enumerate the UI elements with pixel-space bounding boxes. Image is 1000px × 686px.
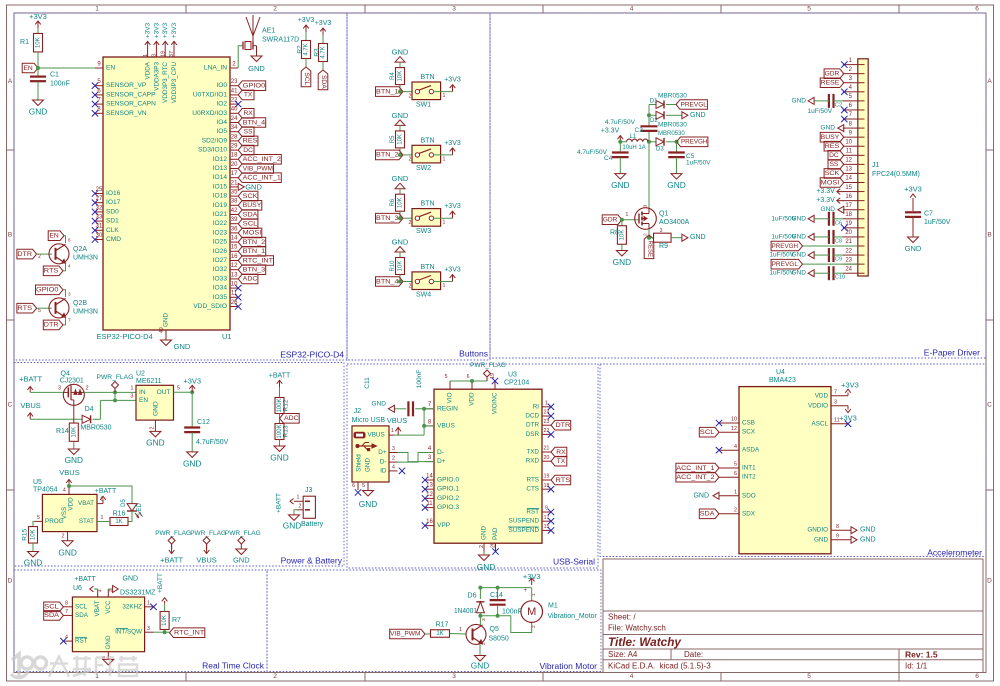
svg-text:IO5: IO5	[216, 128, 227, 135]
svg-text:D-: D-	[437, 449, 444, 456]
svg-text:SENSOR_CAPP: SENSOR_CAPP	[106, 91, 156, 98]
svg-text:RTC_INT: RTC_INT	[174, 630, 204, 637]
svg-text:DSR: DSR	[526, 431, 540, 438]
svg-text:11: 11	[846, 149, 853, 155]
svg-text:2: 2	[273, 673, 277, 680]
svg-text:VBUS: VBUS	[387, 416, 407, 425]
svg-text:22: 22	[544, 428, 550, 434]
svg-text:9: 9	[836, 533, 839, 539]
svg-text:GND: GND	[392, 238, 409, 247]
svg-text:4: 4	[68, 264, 71, 269]
svg-text:File: Watchy.sch: File: Watchy.sch	[608, 624, 666, 633]
svg-text:BTN_3: BTN_3	[376, 215, 399, 222]
svg-text:3: 3	[392, 446, 395, 452]
svg-text:C11: C11	[364, 377, 371, 389]
svg-text:CLK: CLK	[106, 227, 119, 234]
svg-text:D3: D3	[656, 147, 664, 153]
svg-text:VDD: VDD	[815, 392, 829, 399]
svg-text:Vibration Motor: Vibration Motor	[540, 661, 598, 671]
svg-text:GND: GND	[392, 174, 409, 183]
svg-text:Sheet: /: Sheet: /	[608, 613, 636, 622]
svg-text:BTN_1: BTN_1	[376, 88, 399, 95]
svg-text:BTN_4: BTN_4	[376, 278, 399, 285]
svg-text:IO32: IO32	[213, 266, 228, 273]
svg-text:2: 2	[409, 157, 412, 163]
svg-text:35: 35	[231, 190, 238, 196]
svg-text:IO12: IO12	[213, 156, 228, 163]
svg-text:GND: GND	[613, 257, 631, 267]
svg-text:GND: GND	[359, 499, 377, 509]
svg-text:U0RXD/IO3: U0RXD/IO3	[192, 110, 227, 117]
svg-text:RTS: RTS	[44, 268, 59, 275]
svg-text:3: 3	[834, 399, 837, 405]
svg-text:17: 17	[544, 515, 550, 521]
svg-text:J2: J2	[354, 408, 362, 415]
svg-text:D4: D4	[85, 406, 94, 413]
svg-text:VBUS: VBUS	[59, 468, 79, 477]
svg-text:GND: GND	[174, 342, 191, 351]
svg-text:1: 1	[95, 6, 99, 13]
svg-text:VDDA: VDDA	[145, 61, 152, 79]
svg-text:1uF/50V: 1uF/50V	[771, 215, 796, 222]
svg-text:U1: U1	[222, 332, 232, 341]
svg-text:ADC: ADC	[243, 276, 258, 283]
svg-text:J1: J1	[872, 162, 880, 169]
svg-text:ADC: ADC	[284, 415, 299, 422]
svg-text:2: 2	[479, 545, 485, 548]
svg-text:49: 49	[159, 327, 165, 333]
svg-text:D-: D-	[380, 459, 387, 466]
svg-text:+3V3: +3V3	[444, 140, 461, 147]
svg-text:1: 1	[297, 495, 300, 501]
svg-text:SCL: SCL	[44, 604, 59, 611]
svg-text:SDA: SDA	[243, 211, 258, 218]
svg-text:Rev: 1.5: Rev: 1.5	[905, 650, 938, 660]
svg-text:17: 17	[845, 203, 852, 209]
svg-text:IO33: IO33	[213, 275, 228, 282]
svg-text:GPIO.0: GPIO.0	[437, 477, 459, 484]
svg-text:DTR: DTR	[526, 422, 539, 429]
svg-text:Battery: Battery	[301, 521, 324, 528]
svg-text:IO13: IO13	[213, 165, 228, 172]
svg-text:Q5: Q5	[490, 626, 499, 633]
svg-text:IO25: IO25	[213, 239, 228, 246]
svg-text:PREVGL: PREVGL	[681, 101, 708, 108]
svg-text:GNDIO: GNDIO	[807, 527, 828, 534]
svg-text:1: 1	[443, 156, 446, 162]
svg-text:USB-Serial: USB-Serial	[553, 557, 595, 567]
svg-text:GND: GND	[248, 64, 265, 73]
svg-text:CJ2301: CJ2301	[60, 378, 84, 385]
svg-text:5: 5	[807, 6, 811, 13]
svg-text:41: 41	[231, 88, 238, 94]
svg-text:Q2A: Q2A	[73, 246, 87, 253]
svg-text:3: 3	[452, 6, 456, 13]
svg-text:GND: GND	[392, 111, 409, 120]
svg-text:SCL: SCL	[700, 429, 715, 436]
svg-text:U6: U6	[73, 585, 82, 592]
svg-text:1: 1	[545, 400, 548, 406]
svg-text:STAT: STAT	[79, 518, 94, 525]
svg-text:OUT: OUT	[157, 389, 171, 396]
svg-text:GND: GND	[690, 234, 706, 241]
svg-text:CSB: CSB	[742, 420, 755, 427]
svg-text:R12: R12	[283, 399, 290, 411]
svg-text:INT1: INT1	[742, 465, 756, 472]
svg-text:GDR: GDR	[825, 70, 840, 77]
svg-text:+BATT: +BATT	[95, 488, 117, 495]
svg-text:4.7K: 4.7K	[321, 46, 327, 58]
svg-text:BTN_3: BTN_3	[243, 267, 266, 274]
svg-text:34: 34	[231, 125, 238, 131]
svg-text:VIO/NC: VIO/NC	[492, 392, 499, 414]
svg-text:J3: J3	[305, 487, 313, 494]
svg-text:BTN: BTN	[421, 74, 435, 81]
svg-text:ACC_INT_1: ACC_INT_1	[676, 465, 714, 472]
svg-text:4.7uF/50V: 4.7uF/50V	[605, 119, 636, 126]
svg-text:GND: GND	[270, 453, 288, 463]
svg-text:+3.3V: +3.3V	[601, 128, 620, 135]
svg-text:R8: R8	[610, 230, 619, 237]
svg-text:+3V3: +3V3	[444, 267, 461, 274]
svg-text:10K: 10K	[398, 197, 404, 208]
svg-text:3: 3	[58, 386, 61, 392]
svg-text:Date:: Date:	[684, 650, 703, 659]
svg-text:2: 2	[108, 589, 114, 592]
svg-text:6: 6	[352, 483, 355, 489]
svg-text:C10: C10	[835, 275, 845, 281]
svg-text:SW1: SW1	[416, 102, 431, 109]
svg-text:PREVGL: PREVGL	[772, 261, 799, 268]
svg-text:4: 4	[630, 6, 634, 13]
svg-text:TX: TX	[557, 458, 566, 465]
svg-text:C1: C1	[50, 72, 59, 79]
svg-text:ACC_INT_2: ACC_INT_2	[676, 474, 714, 481]
svg-text:PAD: PAD	[492, 527, 499, 540]
svg-text:IO18: IO18	[213, 193, 228, 200]
svg-text:R15: R15	[22, 528, 29, 540]
svg-text:IO34: IO34	[213, 285, 228, 292]
svg-text:36: 36	[231, 226, 238, 232]
svg-text:VBAT: VBAT	[94, 600, 101, 616]
svg-text:GND: GND	[65, 455, 83, 465]
svg-text:IO16: IO16	[106, 190, 121, 197]
svg-text:18: 18	[231, 153, 238, 159]
svg-text:C: C	[987, 402, 992, 409]
svg-text:1: 1	[459, 627, 462, 633]
svg-text:RTS: RTS	[527, 477, 539, 484]
svg-text:VIB_PWM: VIB_PWM	[243, 165, 274, 172]
svg-text:GDR: GDR	[603, 217, 618, 224]
svg-text:15: 15	[231, 245, 238, 251]
svg-text:UMH3N: UMH3N	[73, 308, 98, 315]
svg-text:R9: R9	[659, 243, 668, 250]
svg-text:10K: 10K	[31, 529, 37, 540]
svg-text:EN: EN	[49, 233, 58, 240]
svg-text:IO26: IO26	[213, 248, 228, 255]
svg-text:24: 24	[544, 410, 550, 416]
svg-text:10K: 10K	[162, 615, 168, 626]
svg-text:Size: A4: Size: A4	[608, 650, 638, 659]
svg-text:D: D	[8, 578, 13, 585]
svg-text:17: 17	[231, 171, 238, 177]
svg-text:GND: GND	[29, 107, 47, 117]
svg-text:R4: R4	[390, 72, 396, 80]
svg-text:UMH3N: UMH3N	[73, 254, 98, 261]
svg-text:MBR0530: MBR0530	[658, 121, 687, 128]
svg-text:FPC24(0.5MM): FPC24(0.5MM)	[872, 171, 920, 178]
svg-text:ACC_INT_1: ACC_INT_1	[243, 175, 281, 182]
svg-text:VDD3P3_RTC: VDD3P3_RTC	[162, 62, 169, 103]
svg-text:+3V3: +3V3	[298, 17, 315, 24]
svg-text:D6: D6	[468, 593, 477, 600]
svg-text:1K: 1K	[436, 631, 443, 637]
svg-text:42: 42	[231, 208, 238, 214]
svg-text:Id: 1/1: Id: 1/1	[905, 661, 928, 670]
svg-text:GPIO.3: GPIO.3	[437, 504, 459, 511]
svg-text:MBR0530: MBR0530	[658, 131, 685, 137]
svg-text:1uF/50V: 1uF/50V	[769, 270, 794, 277]
svg-text:IO19: IO19	[213, 202, 228, 209]
svg-text:RESE: RESE	[821, 80, 840, 87]
svg-text:1N4001: 1N4001	[454, 608, 477, 615]
svg-text:37: 37	[169, 51, 175, 57]
svg-text:21: 21	[544, 446, 550, 452]
svg-text:IO0: IO0	[216, 82, 227, 89]
svg-text:2: 2	[481, 642, 487, 645]
svg-text:LNA_IN: LNA_IN	[204, 65, 227, 72]
svg-text:EN: EN	[23, 65, 32, 72]
svg-text:+: +	[523, 588, 527, 594]
svg-text:12: 12	[731, 426, 737, 432]
svg-text:BTN_4: BTN_4	[243, 119, 266, 126]
svg-text:+3V3: +3V3	[839, 413, 857, 422]
svg-text:10K: 10K	[36, 37, 42, 48]
svg-text:ASCL: ASCL	[812, 420, 829, 427]
svg-text:1: 1	[443, 220, 446, 226]
svg-text:PWR_FLAG: PWR_FLAG	[97, 374, 134, 381]
svg-text:3: 3	[152, 54, 158, 57]
svg-text:VBUS: VBUS	[20, 401, 40, 410]
svg-text:3: 3	[147, 626, 150, 632]
svg-text:Real Time Clock: Real Time Clock	[202, 661, 265, 671]
svg-text:40: 40	[231, 107, 238, 113]
svg-text:9: 9	[545, 506, 548, 512]
svg-text:3: 3	[643, 205, 649, 208]
svg-text:RI: RI	[533, 403, 540, 410]
svg-text:100nF: 100nF	[502, 608, 522, 615]
svg-text:4: 4	[392, 464, 395, 470]
svg-text:Q1: Q1	[659, 211, 668, 218]
svg-text:R17: R17	[436, 621, 449, 628]
svg-text:8: 8	[836, 524, 839, 530]
svg-text:13: 13	[231, 272, 238, 278]
svg-text:23: 23	[845, 257, 852, 263]
svg-text:L1: L1	[630, 134, 637, 140]
svg-text:+BATT: +BATT	[157, 573, 164, 593]
svg-text:24: 24	[845, 266, 852, 272]
svg-text:ESP32-PICO-D4: ESP32-PICO-D4	[97, 332, 153, 341]
svg-text:5: 5	[807, 673, 811, 680]
svg-text:SCK: SCK	[243, 193, 258, 200]
svg-text:2: 2	[392, 456, 395, 462]
svg-text:VBUS: VBUS	[437, 422, 456, 429]
svg-text:10K: 10K	[398, 71, 404, 82]
svg-text:Q4: Q4	[61, 371, 70, 378]
svg-text:1: 1	[626, 212, 629, 218]
svg-text:+3V3: +3V3	[315, 20, 332, 27]
svg-text:IO23: IO23	[213, 229, 228, 236]
svg-text:2: 2	[62, 534, 65, 540]
svg-text:SS: SS	[829, 161, 838, 168]
svg-text:DTR: DTR	[44, 322, 59, 329]
svg-text:4: 4	[63, 488, 66, 494]
svg-text:ID: ID	[380, 467, 387, 474]
svg-text:GND: GND	[860, 536, 876, 543]
svg-text:IO15: IO15	[213, 183, 228, 190]
svg-text:13: 13	[426, 483, 433, 489]
svg-text:6: 6	[975, 6, 979, 13]
svg-text:3: 3	[481, 618, 487, 621]
svg-text:ASDA: ASDA	[742, 447, 760, 454]
svg-text:29: 29	[231, 144, 238, 150]
svg-text:VIO: VIO	[447, 392, 454, 403]
svg-text:10: 10	[845, 139, 852, 145]
svg-text:TP4054: TP4054	[33, 486, 58, 493]
svg-text:M1: M1	[548, 603, 558, 610]
svg-text:10uH 1A: 10uH 1A	[622, 145, 645, 151]
svg-text:R14: R14	[56, 428, 69, 435]
svg-text:RST: RST	[526, 509, 539, 516]
svg-text:DTR: DTR	[17, 251, 32, 258]
svg-text:SCL: SCL	[75, 603, 88, 610]
svg-text:20: 20	[544, 455, 550, 461]
svg-text:SD2/IO9: SD2/IO9	[202, 137, 228, 144]
svg-text:GPIO.2: GPIO.2	[437, 495, 459, 502]
svg-text:GND: GND	[667, 180, 685, 190]
svg-text:GND: GND	[183, 458, 201, 468]
svg-text:8: 8	[65, 600, 68, 606]
svg-text:21: 21	[231, 180, 238, 186]
svg-text:SENSOR_VP: SENSOR_VP	[106, 82, 147, 89]
svg-text:RES: RES	[243, 138, 258, 145]
svg-text:2: 2	[273, 6, 277, 13]
svg-text:4: 4	[734, 444, 737, 450]
svg-text:GND: GND	[283, 521, 301, 531]
svg-text:C12: C12	[197, 419, 210, 426]
svg-text:U0TXD/IO1: U0TXD/IO1	[193, 91, 227, 98]
svg-text:VDDA3P3: VDDA3P3	[153, 62, 160, 91]
svg-text:GPIO0: GPIO0	[36, 287, 59, 294]
svg-text:R13: R13	[283, 425, 290, 437]
svg-text:PWR_FLAG: PWR_FLAG	[155, 530, 191, 537]
svg-text:MBR0530: MBR0530	[80, 425, 111, 432]
svg-text:4: 4	[98, 589, 104, 592]
svg-text:2: 2	[531, 625, 537, 628]
svg-text:R2: R2	[297, 45, 304, 54]
svg-text:Q2B: Q2B	[73, 300, 87, 307]
svg-text:SDO: SDO	[742, 492, 756, 499]
svg-text:5: 5	[37, 515, 40, 521]
svg-text:1: 1	[101, 515, 104, 521]
svg-text:+3V3: +3V3	[29, 12, 47, 21]
svg-text:5: 5	[177, 386, 180, 392]
svg-text:100nF: 100nF	[416, 370, 423, 388]
svg-text:10K: 10K	[398, 134, 404, 145]
svg-text:20: 20	[845, 230, 852, 236]
svg-text:23: 23	[544, 419, 550, 425]
svg-text:+3V3: +3V3	[523, 572, 541, 581]
svg-text:1uF/50V: 1uF/50V	[769, 252, 794, 259]
svg-text:2: 2	[150, 427, 156, 430]
svg-text:R6: R6	[390, 198, 396, 206]
svg-text:DS3231MZ: DS3231MZ	[120, 590, 156, 597]
svg-text:EN: EN	[106, 65, 115, 72]
svg-text:GND: GND	[690, 112, 706, 119]
svg-text:1: 1	[391, 428, 394, 434]
svg-text:IO35: IO35	[213, 294, 228, 301]
svg-text:C6: C6	[835, 220, 842, 226]
svg-text:25: 25	[491, 542, 497, 548]
svg-text:BTN_1: BTN_1	[243, 248, 266, 255]
svg-text:14: 14	[845, 176, 852, 182]
svg-text:2: 2	[409, 283, 412, 289]
svg-text:12: 12	[426, 492, 433, 498]
svg-text:D+: D+	[378, 449, 387, 456]
svg-text:GND: GND	[146, 437, 164, 447]
svg-text:24: 24	[231, 116, 238, 122]
svg-text:10K: 10K	[71, 427, 77, 438]
svg-text:1: 1	[734, 489, 737, 495]
svg-text:13: 13	[845, 167, 852, 173]
svg-text:RX: RX	[243, 110, 253, 117]
svg-text:GND: GND	[471, 661, 489, 671]
svg-text:REGIN: REGIN	[437, 405, 458, 412]
svg-text:GND: GND	[481, 526, 488, 540]
svg-text:ESP32-PICO-D4: ESP32-PICO-D4	[280, 350, 344, 360]
svg-text:100nF: 100nF	[50, 81, 70, 88]
svg-text:SW3: SW3	[416, 228, 431, 235]
svg-text:PWR_FLAG: PWR_FLAG	[190, 530, 226, 537]
svg-text:2: 2	[299, 503, 302, 509]
svg-text:GPIO.1: GPIO.1	[437, 486, 459, 493]
svg-text:+3V3: +3V3	[904, 185, 922, 194]
svg-text:C9: C9	[835, 257, 842, 263]
svg-text:GND: GND	[58, 547, 76, 557]
svg-text:GND: GND	[372, 401, 387, 408]
svg-text:E-Paper Driver: E-Paper Driver	[924, 348, 980, 358]
svg-text:RTS: RTS	[556, 477, 571, 484]
svg-text:RTS: RTS	[17, 305, 32, 312]
svg-text:TX: TX	[244, 92, 253, 99]
svg-text:VBUS: VBUS	[196, 555, 216, 564]
svg-text:EN: EN	[139, 397, 148, 404]
svg-text:+3.3V: +3.3V	[816, 197, 835, 204]
svg-text:1uF/50V: 1uF/50V	[686, 160, 711, 167]
svg-text:Micro USB: Micro USB	[352, 417, 386, 424]
svg-text:U4: U4	[776, 369, 785, 376]
svg-text:+BATT: +BATT	[276, 493, 283, 513]
svg-text:2: 2	[409, 220, 412, 226]
svg-text:5: 5	[38, 308, 41, 314]
svg-text:28: 28	[231, 134, 238, 140]
svg-text:DTR: DTR	[556, 422, 571, 429]
svg-text:1: 1	[531, 593, 537, 596]
svg-text:3: 3	[68, 292, 71, 297]
svg-text:IO4: IO4	[216, 119, 227, 126]
svg-text:12: 12	[231, 263, 238, 269]
svg-text:ME6211: ME6211	[136, 378, 162, 385]
